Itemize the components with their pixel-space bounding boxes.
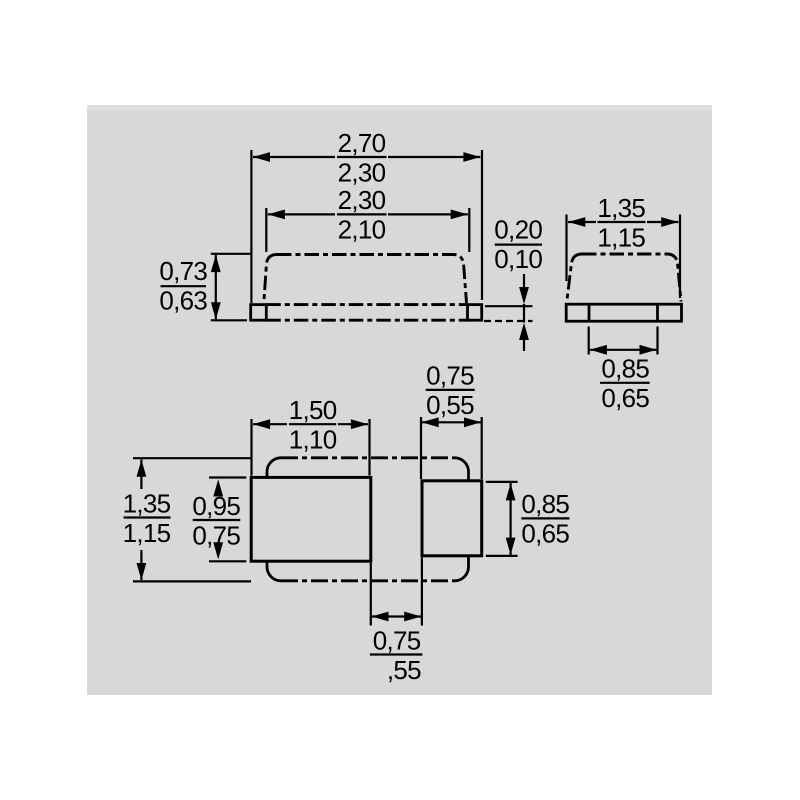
dimension 0,73/0,63 bottom extension bar	[211, 319, 247, 321]
dimension 1,35/1,15 extension line left	[565, 215, 567, 282]
dimension 0,20/0,10 bottom extension line (dashed)	[484, 320, 533, 322]
side view body outline (phantom)	[264, 255, 467, 304]
dimension 0,73/0,63 dimension line with arrows	[211, 255, 221, 320]
side view seating plane bottom line (dash-dot)	[266, 319, 467, 322]
dimension 0,85/0,65 (below end view) extension line right	[656, 327, 658, 355]
dimension 0,95/0,75 top extension bar	[209, 476, 246, 478]
dimension 0,75/,55 (bottom gap) extension line left	[370, 563, 372, 626]
svg-text:1,35: 1,35	[597, 193, 645, 223]
svg-text:0,65: 0,65	[601, 383, 649, 413]
dimension 2,70/2,30 extension line right	[481, 150, 483, 300]
dimension text 0,95 over 0,75	[192, 491, 240, 551]
dimension text 0,75 over 0,55 (top right)	[426, 361, 475, 421]
dimension text 1,35 over 1,15 (footprint left)	[123, 488, 171, 548]
svg-text:0,85: 0,85	[601, 354, 649, 384]
dimension text 2,70 over 2,30	[337, 128, 387, 188]
dimension 1,35/1,15 extension line right	[679, 215, 681, 299]
dimension 1,50/1,10 extension line left	[250, 419, 252, 476]
dimension 0,85/0,65 (below end view) dimension line	[590, 345, 657, 355]
svg-text:0,85: 0,85	[521, 489, 569, 519]
dimension 1,35/1,15 (footprint left) top extension line	[133, 457, 251, 459]
dimension 2,30/2,10 extension line right	[468, 208, 470, 252]
svg-text:1,15: 1,15	[123, 518, 171, 548]
svg-text:,55: ,55	[387, 655, 421, 685]
dimension 0,85/0,65 (below end view) extension line left	[588, 327, 590, 355]
dimension 2,70/2,30 dimension line	[253, 152, 481, 162]
dimension 1,50/1,10 dimension line	[253, 419, 368, 429]
dimension 0,85/0,65 (footprint right) top extension bar	[486, 481, 518, 483]
dimension 1,35/1,15 dimension line	[568, 217, 678, 227]
dimension 0,75/,55 (bottom gap) extension line right	[421, 558, 423, 626]
svg-text:0,95: 0,95	[192, 491, 240, 521]
dimension 0,95/0,75 bottom extension bar	[209, 560, 246, 562]
dimension 0,75/0,55 (top right) dimension line with inside arrows	[421, 417, 482, 427]
svg-text:0,75: 0,75	[373, 625, 421, 655]
dimension text 1,50 over 1,10	[289, 395, 337, 455]
side view left terminal cap	[251, 305, 267, 321]
svg-text:0,63: 0,63	[159, 285, 207, 315]
svg-text:2,70: 2,70	[338, 128, 386, 158]
footprint right pad	[422, 481, 482, 556]
dimension 2,30/2,10 dimension line	[268, 210, 468, 220]
dimension 2,30/2,10 extension line left	[265, 208, 267, 252]
dimension 2,70/2,30 extension line left	[250, 150, 252, 303]
dimension 0,75/,55 (bottom gap) dimension line with inside arrows	[371, 612, 422, 622]
gray drawing panel	[87, 105, 712, 695]
footprint body outline (rounded rect, phantom)	[267, 458, 469, 581]
dimension 0,95/0,75 arrows	[213, 479, 223, 559]
dimension 0,73/0,63 top extension bar	[211, 253, 252, 255]
end view body outline (phantom)	[567, 254, 681, 302]
dimension text 0,75 over ,55 (bottom gap)	[370, 625, 423, 685]
svg-text:0,75: 0,75	[192, 520, 240, 550]
dimension 0,85/0,65 (footprint right) dimension line with arrows	[506, 483, 516, 555]
footprint left pad	[251, 477, 371, 561]
dimension 0,85/0,65 (footprint right) bottom extension bar	[486, 555, 518, 557]
dimension 0,75/0,55 (top right) extension line right	[481, 417, 483, 479]
dimension text 0,85 over 0,65 (below end view)	[600, 354, 650, 414]
dimension 1,35/1,15 (footprint left) dimension line with arrows	[137, 460, 147, 581]
dimension 0,75/0,55 (top right) extension line left	[420, 417, 422, 479]
svg-text:0,10: 0,10	[494, 244, 542, 274]
svg-text:0,20: 0,20	[494, 214, 542, 244]
svg-text:1,50: 1,50	[289, 395, 337, 425]
dimension text 0,20 over 0,10	[494, 214, 542, 274]
dimension 1,50/1,10 extension line right	[368, 419, 370, 476]
end view terminal strip right divider	[656, 304, 659, 321]
svg-text:1,15: 1,15	[597, 222, 645, 252]
svg-text:0,65: 0,65	[521, 519, 569, 549]
dimension 1,35/1,15 (footprint left) bottom extension line	[133, 580, 251, 582]
dimension 0,20/0,10 top extension line (solid)	[485, 305, 533, 307]
svg-text:0,75: 0,75	[426, 361, 474, 391]
svg-text:2,30: 2,30	[338, 185, 386, 215]
svg-text:1,35: 1,35	[123, 488, 171, 518]
end view terminal strip left divider	[588, 304, 591, 321]
svg-text:2,30: 2,30	[338, 157, 386, 187]
dimension text 1,35 over 1,15 (end view)	[597, 193, 645, 253]
dimension 0,20/0,10 arrows	[519, 274, 529, 351]
dimension text 2,30 over 2,10	[337, 185, 387, 245]
svg-text:0,55: 0,55	[426, 390, 474, 420]
side view seating plane top line (dash-dot)	[266, 303, 467, 306]
end view terminal strip outline	[566, 304, 681, 321]
svg-text:2,10: 2,10	[338, 215, 386, 245]
dimension text 0,73 over 0,63	[159, 256, 207, 316]
svg-text:0,73: 0,73	[159, 256, 207, 286]
dimension text 0,85 over 0,65 (footprint right)	[521, 489, 569, 549]
svg-text:1,10: 1,10	[289, 425, 337, 455]
side view right terminal cap	[468, 305, 482, 321]
